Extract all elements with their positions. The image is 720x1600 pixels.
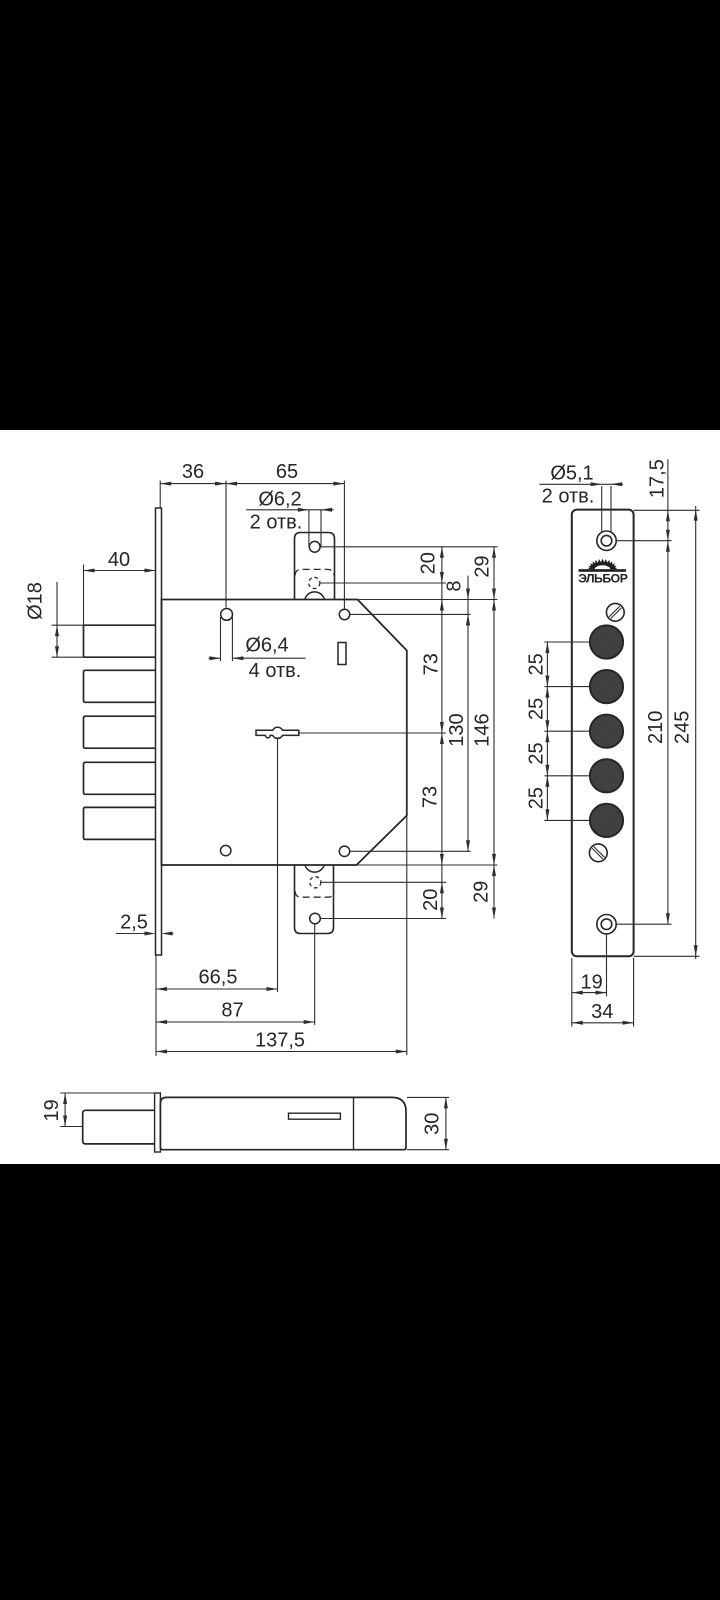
svg-text:66,5: 66,5	[199, 966, 238, 988]
key change lever in body centre	[256, 727, 299, 738]
dimension 36 (top)	[159, 481, 161, 508]
dimension 17,5 and 210 (shared line)	[667, 459, 669, 924]
leader Ø5,1 / 2 отв. for plate screw holes	[601, 486, 603, 533]
extension line from upper-right hole	[350, 613, 471, 615]
extension line from bottom tab hole	[320, 918, 446, 920]
bottom tab dashed circle	[310, 877, 321, 888]
main front view: lock body outline with chamfered right corners	[162, 600, 407, 866]
side view: lock body	[160, 1097, 406, 1149]
ELBOR logo	[588, 559, 617, 570]
top tab half-dome on body edge	[305, 592, 324, 599]
svg-text:245: 245	[672, 711, 694, 744]
dimension 30 (side view)	[407, 1096, 449, 1098]
extension line from bottom tab hole down	[314, 924, 316, 1025]
fixing hole lower-right	[339, 846, 349, 856]
svg-text:73: 73	[421, 653, 443, 675]
extension line from lever down to bottom dimensions	[277, 739, 279, 993]
svg-text:25: 25	[525, 787, 547, 809]
extension lines right of plate	[634, 509, 700, 511]
dimension 65 (top)	[343, 481, 345, 609]
fixing hole upper-right	[339, 609, 349, 619]
svg-text:137,5: 137,5	[255, 1030, 305, 1052]
dimension 66,5	[156, 988, 278, 990]
white drawing sheet	[0, 430, 720, 1164]
main front view: lock faceplate strip	[156, 508, 162, 955]
svg-text:25: 25	[525, 653, 547, 675]
svg-text:Ø5,1: Ø5,1	[550, 462, 593, 484]
top mounting tab (ear) on lock body	[295, 533, 335, 600]
svg-text:146: 146	[471, 713, 493, 746]
dimension 137,5	[156, 1051, 407, 1053]
svg-text:ЭЛЬБОР: ЭЛЬБОР	[578, 572, 628, 586]
side view: faceplate strip	[155, 1093, 161, 1152]
extension line from lever centre	[299, 732, 446, 734]
bottom mounting tab (ear) on lock body	[295, 865, 334, 934]
strike plate outline	[572, 510, 634, 957]
svg-text:2 отв.: 2 отв.	[250, 512, 303, 534]
extension line from top tab dashed circle	[320, 582, 446, 584]
dimension 34 (plate width)	[571, 996, 573, 1026]
plate bottom slotted screw	[589, 844, 607, 862]
small rectangular slot in body	[338, 643, 346, 665]
svg-text:130: 130	[446, 713, 468, 746]
fixing hole Ø6,4 upper-left	[221, 609, 233, 621]
bottom tab half-dome under body edge	[305, 865, 324, 872]
dimension line 20 / 73 / 73 / 20 (right chain)	[441, 547, 443, 919]
extension line from top tab hole	[320, 546, 498, 548]
svg-text:25: 25	[525, 742, 547, 764]
svg-text:20: 20	[420, 889, 442, 911]
svg-text:29: 29	[471, 881, 493, 903]
deadbolts (5) protruding on left	[84, 625, 156, 657]
plate top screw hole Ø5,1	[597, 531, 616, 550]
svg-text:Ø18: Ø18	[25, 582, 47, 620]
leader Ø6,2 / 2 отв. for top tab hole	[308, 510, 310, 547]
dimension chain 25 x4 on plate left	[544, 641, 590, 643]
side view: deadbolt	[83, 1110, 155, 1144]
svg-text:2 отв.: 2 отв.	[542, 486, 595, 508]
dimension 245	[695, 506, 697, 959]
side view: divider line	[353, 1097, 355, 1149]
svg-text:Ø6,2: Ø6,2	[258, 488, 301, 510]
dimension 40 (bolt protrusion)	[83, 565, 85, 626]
plate bottom screw hole Ø5,1	[597, 915, 616, 934]
svg-text:36: 36	[182, 461, 204, 483]
dimension line 29 / 146 / 29 (outer right chain)	[493, 547, 495, 919]
dimension 2,5 (faceplate thickness)	[116, 933, 152, 935]
extension line from body top edge	[358, 599, 498, 601]
extension line faceplate left edge down	[155, 955, 157, 1056]
svg-text:73: 73	[420, 786, 442, 808]
svg-text:2,5: 2,5	[120, 912, 148, 934]
svg-text:17,5: 17,5	[646, 459, 668, 498]
bottom tab hole	[310, 913, 321, 924]
svg-text:8: 8	[444, 580, 466, 591]
svg-text:65: 65	[276, 461, 298, 483]
svg-text:34: 34	[591, 1001, 613, 1023]
side view: slot	[289, 1113, 341, 1119]
svg-text:29: 29	[472, 555, 494, 577]
extension line of body right edge down	[406, 651, 408, 1056]
fixing hole lower-left	[221, 845, 231, 855]
dimension line 8 / 130 (second right chain)	[467, 576, 469, 852]
top tab dashed recess cap	[295, 569, 334, 575]
dimension Ø18 (bolt diameter)	[52, 624, 84, 626]
top tab dashed circle	[309, 577, 320, 588]
extension line from lower-right hole	[350, 850, 471, 852]
dimension 19 (plate, bottom)	[571, 958, 573, 996]
svg-text:25: 25	[525, 698, 547, 720]
leader Ø6,4 / 4 отв. for fixing holes	[220, 617, 222, 661]
svg-text:19: 19	[41, 1099, 63, 1121]
svg-text:87: 87	[221, 1000, 243, 1022]
svg-text:210: 210	[645, 711, 667, 744]
plate top slotted screw	[606, 603, 624, 621]
extension line from body bottom edge	[357, 864, 498, 866]
svg-text:40: 40	[108, 549, 130, 571]
dimension 87	[156, 1021, 315, 1023]
top tab hole Ø6,2	[309, 541, 320, 552]
svg-text:19: 19	[580, 971, 602, 993]
extension line from bottom tab dashed circle	[320, 881, 446, 883]
svg-text:4 отв.: 4 отв.	[249, 660, 302, 682]
svg-text:Ø6,4: Ø6,4	[245, 635, 288, 657]
bottom tab dashed recess cap	[295, 891, 334, 897]
svg-text:20: 20	[418, 552, 440, 574]
svg-text:30: 30	[422, 1113, 444, 1135]
dimension 19 (side view)	[60, 1092, 156, 1094]
